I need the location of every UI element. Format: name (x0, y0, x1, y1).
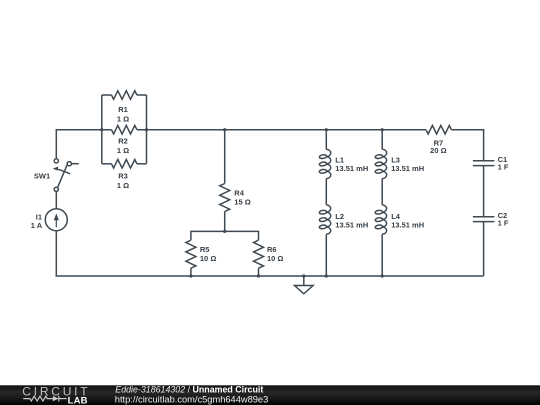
svg-text:Eddie-318614302 / Unnamed Circ: Eddie-318614302 / Unnamed Circuit (115, 385, 263, 395)
node dot: top rail / R-box left (100, 128, 103, 131)
node dot: bottom rail / R5 (189, 274, 192, 277)
wire left column to switch (55, 129, 57, 159)
wire node bar R5-R6 (191, 230, 259, 232)
inductor L1 (319, 149, 331, 178)
ground (295, 276, 314, 294)
svg-text:R6: R6 (267, 245, 277, 254)
wire R4 to node (224, 212, 226, 232)
svg-text:1 F: 1 F (498, 162, 509, 171)
wire R3 right lead (137, 163, 147, 165)
wire R6 top lead (258, 231, 260, 241)
node dot: R4/R5/R6 node (223, 230, 226, 233)
node dot: top rail / L1 (325, 128, 328, 131)
svg-text:L1: L1 (335, 156, 344, 165)
svg-text:R4: R4 (234, 189, 244, 198)
svg-text:15 Ω: 15 Ω (234, 197, 250, 206)
svg-text:R5: R5 (200, 245, 210, 254)
svg-text:1 Ω: 1 Ω (117, 115, 129, 124)
wire R3 left lead (102, 163, 112, 165)
svg-text:1 Ω: 1 Ω (117, 146, 129, 155)
node dot: top rail / R-box right (145, 128, 148, 131)
svg-text:R2: R2 (118, 136, 128, 145)
wire top rail to R4 (224, 130, 226, 184)
svg-text:13.51 mH: 13.51 mH (391, 221, 424, 230)
svg-text:1 A: 1 A (31, 221, 43, 230)
svg-text:SW1: SW1 (34, 172, 50, 181)
wire L2 to bottom rail (325, 234, 327, 276)
wire current source to bottom rail (55, 230, 57, 276)
node dot: bottom rail / ground (302, 274, 305, 277)
wire switch to current source (55, 191, 57, 209)
resistor R2 (112, 125, 137, 134)
capacitor C1 (473, 161, 495, 166)
wire top rail right segment (451, 129, 483, 131)
node dot: bottom rail / R6 (257, 274, 260, 277)
resistor R5 (186, 240, 196, 268)
svg-text:L3: L3 (391, 156, 400, 165)
wire R-box right vertical (146, 95, 148, 164)
svg-text:R1: R1 (118, 105, 128, 114)
wire top rail to L3 (381, 130, 383, 150)
svg-text:20 Ω: 20 Ω (430, 146, 446, 155)
wire R-box left vertical (101, 95, 103, 164)
current source I1 (45, 209, 67, 231)
wire top rail to L1 (325, 130, 327, 150)
wire L4 to bottom rail (381, 234, 383, 276)
switch SW1 (53, 159, 72, 192)
inductor L3 (375, 149, 387, 178)
svg-text:13.51 mH: 13.51 mH (335, 164, 368, 173)
node dot: bottom rail / L2 (325, 274, 328, 277)
wire R1 right lead (137, 94, 147, 96)
wire R6 bottom lead (258, 268, 260, 276)
svg-text:13.51 mH: 13.51 mH (391, 164, 424, 173)
wire C2 to bottom rail (483, 222, 485, 276)
wire top rail left segment (56, 129, 111, 131)
svg-text:http://circuitlab.com/c5gmh644: http://circuitlab.com/c5gmh644w89e3 (115, 394, 268, 404)
node dot: top rail / R4 (223, 128, 226, 131)
svg-text:1 Ω: 1 Ω (117, 181, 129, 190)
inductor L2 (319, 205, 331, 234)
svg-text:1 F: 1 F (498, 218, 509, 227)
wire R5 bottom lead (190, 268, 192, 276)
wire L3 to L4 (381, 179, 383, 205)
svg-text:LAB: LAB (68, 395, 88, 405)
svg-text:I1: I1 (36, 212, 42, 221)
wire L1 to L2 (325, 179, 327, 205)
inductor L4 (375, 205, 387, 234)
node dot: top rail / L3 (381, 128, 384, 131)
wire SW1 second throw stub (71, 163, 79, 165)
wire C1 to C2 (483, 166, 485, 217)
wire R5 top lead (190, 231, 192, 241)
resistor R1 (112, 91, 137, 100)
resistor R6 (254, 240, 264, 268)
svg-text:10 Ω: 10 Ω (200, 254, 216, 263)
resistor R7 (426, 125, 451, 134)
resistor R4 (220, 184, 230, 212)
wire right column top (to C1) (483, 129, 485, 161)
svg-text:10 Ω: 10 Ω (267, 254, 283, 263)
node dot: bottom rail / L4 (381, 274, 384, 277)
svg-text:R3: R3 (118, 172, 128, 181)
CircuitLab logo diode motif (53, 396, 59, 401)
capacitor C2 (473, 217, 495, 222)
wire bottom rail (56, 275, 484, 277)
wire top rail middle segment (137, 129, 426, 131)
wire R1 left lead (102, 94, 112, 96)
resistor R3 (112, 160, 137, 169)
CircuitLab logo resistor squiggle motif (23, 396, 66, 402)
svg-text:13.51 mH: 13.51 mH (335, 221, 368, 230)
